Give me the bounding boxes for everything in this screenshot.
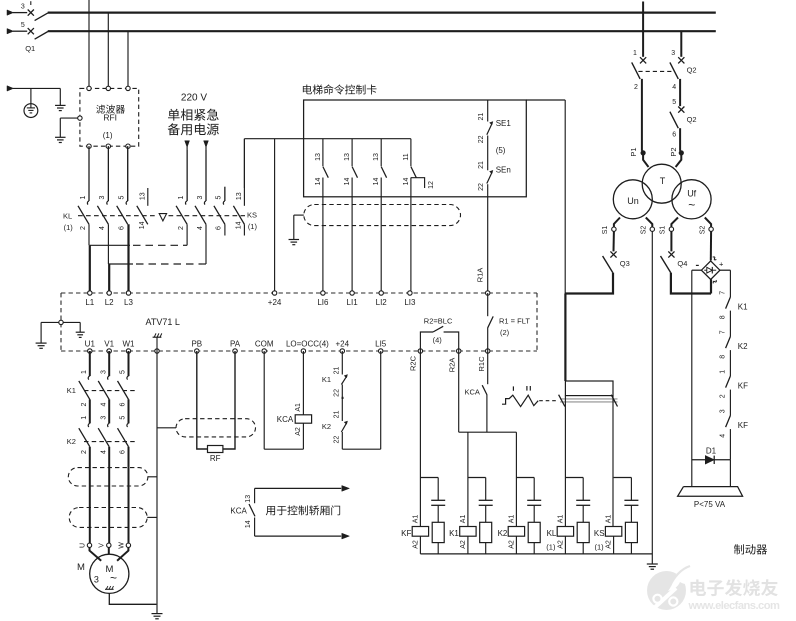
svg-text:4: 4	[672, 84, 676, 91]
svg-text:S2: S2	[699, 226, 706, 235]
svg-text:R2C: R2C	[408, 355, 417, 371]
svg-text:K2: K2	[738, 342, 748, 351]
svg-text:R2A: R2A	[448, 358, 457, 373]
svg-text:R2=BLC: R2=BLC	[424, 316, 453, 325]
svg-text:K1: K1	[449, 529, 459, 538]
svg-text:LI1: LI1	[347, 298, 359, 307]
svg-text:(2): (2)	[500, 328, 510, 337]
svg-text:U1: U1	[85, 340, 96, 349]
svg-text:3: 3	[94, 575, 99, 585]
svg-text:A2: A2	[508, 540, 515, 549]
svg-text:(4): (4)	[433, 335, 443, 344]
svg-text:21: 21	[478, 113, 485, 121]
svg-text:KS: KS	[247, 211, 257, 220]
svg-text:4: 4	[197, 226, 204, 230]
svg-text:14: 14	[245, 520, 252, 528]
svg-text:Q3: Q3	[620, 259, 630, 268]
svg-text:2: 2	[719, 394, 726, 398]
svg-text:LI6: LI6	[317, 298, 329, 307]
svg-text:7: 7	[719, 291, 726, 295]
svg-text:U: U	[79, 543, 86, 548]
svg-text:13: 13	[236, 192, 243, 200]
svg-text:7: 7	[719, 330, 726, 334]
svg-text:K1: K1	[738, 302, 748, 311]
svg-text:22: 22	[478, 135, 485, 143]
svg-text:PA: PA	[230, 340, 241, 349]
svg-text:13: 13	[245, 495, 252, 503]
svg-text:R1A: R1A	[476, 268, 485, 283]
svg-text:22: 22	[334, 436, 341, 444]
svg-text:6: 6	[120, 402, 127, 406]
svg-text:2: 2	[80, 226, 87, 230]
svg-text:220 V: 220 V	[181, 92, 207, 103]
svg-text:4: 4	[719, 434, 726, 438]
svg-text:A2: A2	[557, 540, 564, 549]
svg-text:L3: L3	[124, 298, 133, 307]
svg-text:T: T	[660, 176, 666, 186]
svg-text:P1: P1	[629, 147, 638, 156]
svg-text:KF: KF	[401, 529, 411, 538]
svg-text:1: 1	[81, 370, 88, 374]
svg-text:5: 5	[216, 195, 223, 199]
svg-text:K2: K2	[67, 437, 76, 446]
svg-text:RFI: RFI	[103, 113, 117, 123]
svg-text:11: 11	[403, 153, 410, 160]
svg-text:21: 21	[478, 161, 485, 169]
svg-text:8: 8	[719, 355, 726, 359]
svg-text:A1: A1	[557, 515, 564, 524]
svg-text:V: V	[99, 543, 106, 548]
svg-text:8: 8	[719, 315, 726, 319]
svg-text:KL: KL	[547, 529, 557, 538]
svg-text:COM: COM	[255, 340, 274, 349]
svg-text:(1): (1)	[546, 543, 556, 552]
svg-text:KS: KS	[594, 529, 605, 538]
svg-text:14: 14	[315, 178, 322, 186]
svg-text:V1: V1	[104, 340, 114, 349]
svg-text:S1: S1	[660, 226, 667, 235]
svg-text:SEn: SEn	[496, 166, 511, 175]
svg-text:www.elecfans.com: www.elecfans.com	[688, 600, 780, 612]
svg-text:1: 1	[633, 50, 637, 57]
svg-text:L2: L2	[105, 298, 114, 307]
svg-text:P2: P2	[669, 147, 678, 156]
svg-text:2: 2	[634, 84, 638, 91]
svg-text:W1: W1	[123, 340, 136, 349]
svg-text:3: 3	[100, 370, 107, 374]
svg-text:D1: D1	[706, 446, 717, 455]
svg-text:(1): (1)	[595, 543, 605, 552]
svg-text:K1: K1	[322, 375, 331, 384]
svg-text:KCA: KCA	[464, 387, 479, 396]
svg-text:2: 2	[81, 450, 88, 454]
svg-text:21: 21	[334, 410, 341, 418]
svg-text:13: 13	[140, 192, 147, 200]
svg-text:(1): (1)	[64, 223, 74, 232]
svg-text:A2: A2	[295, 427, 302, 436]
svg-text:+: +	[719, 260, 724, 269]
svg-text:14: 14	[139, 221, 146, 229]
svg-text:KCA: KCA	[230, 506, 247, 515]
svg-text:1: 1	[719, 370, 726, 374]
svg-text:22: 22	[478, 183, 485, 191]
svg-text:12: 12	[428, 181, 435, 189]
svg-text:(1): (1)	[103, 131, 113, 140]
svg-text:A1: A1	[295, 403, 302, 412]
svg-text:4: 4	[100, 450, 107, 454]
svg-text:5: 5	[21, 22, 25, 29]
svg-text:5: 5	[120, 416, 127, 420]
svg-text:14: 14	[403, 178, 410, 186]
svg-text:A2: A2	[460, 540, 467, 549]
svg-text:Uf: Uf	[687, 188, 696, 198]
svg-text:LO=OCC(4): LO=OCC(4)	[286, 340, 329, 349]
svg-text:2: 2	[81, 402, 88, 406]
svg-text:S1: S1	[602, 226, 609, 235]
svg-text:SE1: SE1	[496, 119, 512, 128]
svg-text:3: 3	[99, 195, 106, 199]
svg-text:LI5: LI5	[375, 340, 387, 349]
svg-text:3: 3	[21, 3, 25, 10]
svg-text:6: 6	[120, 450, 127, 454]
svg-text:13: 13	[315, 153, 322, 161]
svg-text:KF: KF	[738, 421, 748, 430]
svg-text:3: 3	[100, 416, 107, 420]
svg-text:A1: A1	[508, 515, 515, 524]
svg-text:(1): (1)	[248, 222, 258, 231]
svg-text:(5): (5)	[496, 146, 506, 155]
svg-text:L1: L1	[85, 298, 94, 307]
svg-text:+24: +24	[268, 298, 282, 307]
svg-text:A1: A1	[412, 515, 419, 524]
svg-text:5: 5	[119, 195, 126, 199]
svg-text:Q1: Q1	[25, 44, 35, 53]
svg-text:S2: S2	[641, 226, 648, 235]
svg-text:5: 5	[672, 99, 676, 106]
svg-text:K2: K2	[322, 422, 331, 431]
svg-text:R1C: R1C	[477, 356, 486, 372]
svg-text:~: ~	[688, 198, 695, 212]
svg-text:2: 2	[178, 226, 185, 230]
svg-text:14: 14	[373, 178, 380, 186]
svg-text:14: 14	[235, 221, 242, 229]
svg-text:Q2: Q2	[687, 66, 697, 75]
svg-text:21: 21	[334, 367, 341, 375]
svg-text:P<75 VA: P<75 VA	[694, 500, 726, 509]
svg-text:1: 1	[178, 195, 185, 199]
svg-text:13: 13	[344, 153, 351, 161]
svg-text:13: 13	[373, 153, 380, 161]
svg-text:A1: A1	[606, 515, 613, 524]
svg-text:Q4: Q4	[677, 259, 687, 268]
svg-text:W: W	[118, 542, 125, 549]
svg-text:6: 6	[672, 132, 676, 139]
svg-text:5: 5	[120, 370, 127, 374]
svg-text:~: ~	[110, 571, 117, 585]
svg-text:RF: RF	[210, 454, 221, 463]
svg-text:K2: K2	[498, 529, 508, 538]
svg-text:KL: KL	[63, 212, 72, 221]
svg-text:4: 4	[99, 226, 106, 230]
svg-text:ATV71 L: ATV71 L	[146, 317, 180, 327]
svg-text:A2: A2	[606, 540, 613, 549]
svg-text:3: 3	[719, 409, 726, 413]
svg-text:LI2: LI2	[376, 298, 388, 307]
svg-text:A2: A2	[412, 540, 419, 549]
svg-text:LI3: LI3	[404, 298, 416, 307]
svg-text:+24: +24	[336, 340, 350, 349]
svg-text:6: 6	[216, 226, 223, 230]
svg-text:Un: Un	[627, 196, 639, 206]
svg-text:3: 3	[197, 195, 204, 199]
svg-text:K1: K1	[67, 386, 76, 395]
svg-text:6: 6	[119, 226, 126, 230]
svg-text:22: 22	[334, 389, 341, 397]
svg-text:Q2: Q2	[687, 115, 697, 124]
svg-text:KCA: KCA	[277, 415, 294, 424]
svg-text:1: 1	[80, 195, 87, 199]
svg-text:14: 14	[344, 178, 351, 186]
svg-text:KF: KF	[738, 381, 748, 390]
svg-text:4: 4	[100, 402, 107, 406]
svg-text:PB: PB	[191, 340, 202, 349]
svg-text:1: 1	[81, 416, 88, 420]
svg-text:3: 3	[671, 50, 675, 57]
svg-text:R1 = FLT: R1 = FLT	[499, 316, 530, 325]
svg-text:A1: A1	[460, 515, 467, 524]
svg-text:M: M	[77, 562, 85, 573]
